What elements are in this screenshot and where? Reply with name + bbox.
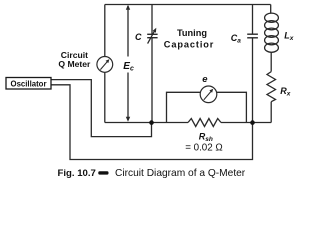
svg-text:Rx: Rx [280, 86, 291, 98]
wire left edge lower [104, 72, 106, 122]
svg-text:Rsh: Rsh [199, 132, 213, 144]
svg-text:Capactior: Capactior [164, 39, 214, 49]
capacitor Ca wire lower [252, 38, 254, 123]
voltmeter loop top right wire [217, 92, 247, 122]
wire bottom rail right [221, 122, 271, 124]
Ec arrow line upper [127, 6, 129, 57]
svg-text:e: e [202, 74, 208, 85]
capacitor C plates [147, 33, 157, 35]
inductor Lx coil [265, 13, 279, 22]
svg-text:Circuit Diagram of a Q-Meter: Circuit Diagram of a Q-Meter [115, 168, 246, 179]
capacitor C wire upper [151, 5, 153, 35]
svg-text:= 0.02 Ω: = 0.02 Ω [185, 142, 223, 153]
capacitor Ca wire upper [252, 5, 254, 35]
capacitor C variable arrow [148, 31, 155, 44]
Ec arrow line lower [127, 73, 129, 120]
Ec arrowhead down [126, 117, 130, 122]
capacitor Ca plates [247, 33, 258, 35]
oscillator output wire 2 [51, 85, 253, 160]
caption bar [98, 171, 108, 174]
capacitor C wire lower [151, 38, 153, 123]
wire bottom rail left [105, 122, 188, 124]
resistor Rsh zigzag [188, 119, 221, 127]
oscillator output wire 1 [51, 80, 152, 137]
svg-text:Q Meter: Q Meter [58, 59, 91, 69]
meter M1 needle [100, 61, 108, 70]
voltmeter M2 e circle [200, 86, 217, 103]
voltmeter M2 needle [204, 91, 212, 100]
resistor Rx zigzag [267, 72, 276, 102]
voltmeter loop top left wire [167, 92, 201, 122]
svg-text:Ec: Ec [123, 61, 134, 73]
wire top rail [105, 4, 271, 6]
node junction dot left (C / Rsh rail / oscillator lead) [149, 120, 154, 125]
inductor Lx entry wire [270, 5, 272, 14]
svg-text:Ca: Ca [231, 33, 242, 45]
svg-text:Tuning: Tuning [177, 28, 207, 38]
node junction dot right (Ca / Rsh rail / oscillator return) [250, 120, 255, 125]
oscillator box [6, 78, 51, 90]
Ec arrowhead up [126, 5, 130, 10]
svg-text:C: C [135, 32, 142, 42]
wire Rx to bottom rail [270, 102, 272, 123]
svg-text:Fig. 10.7: Fig. 10.7 [58, 168, 96, 179]
svg-text:Lx: Lx [284, 30, 294, 42]
meter M1 Q-meter movement circle [97, 57, 113, 73]
svg-text:Oscillator: Oscillator [11, 79, 47, 88]
inductor Lx exit wire [270, 52, 272, 72]
wire left edge upper [104, 5, 106, 57]
